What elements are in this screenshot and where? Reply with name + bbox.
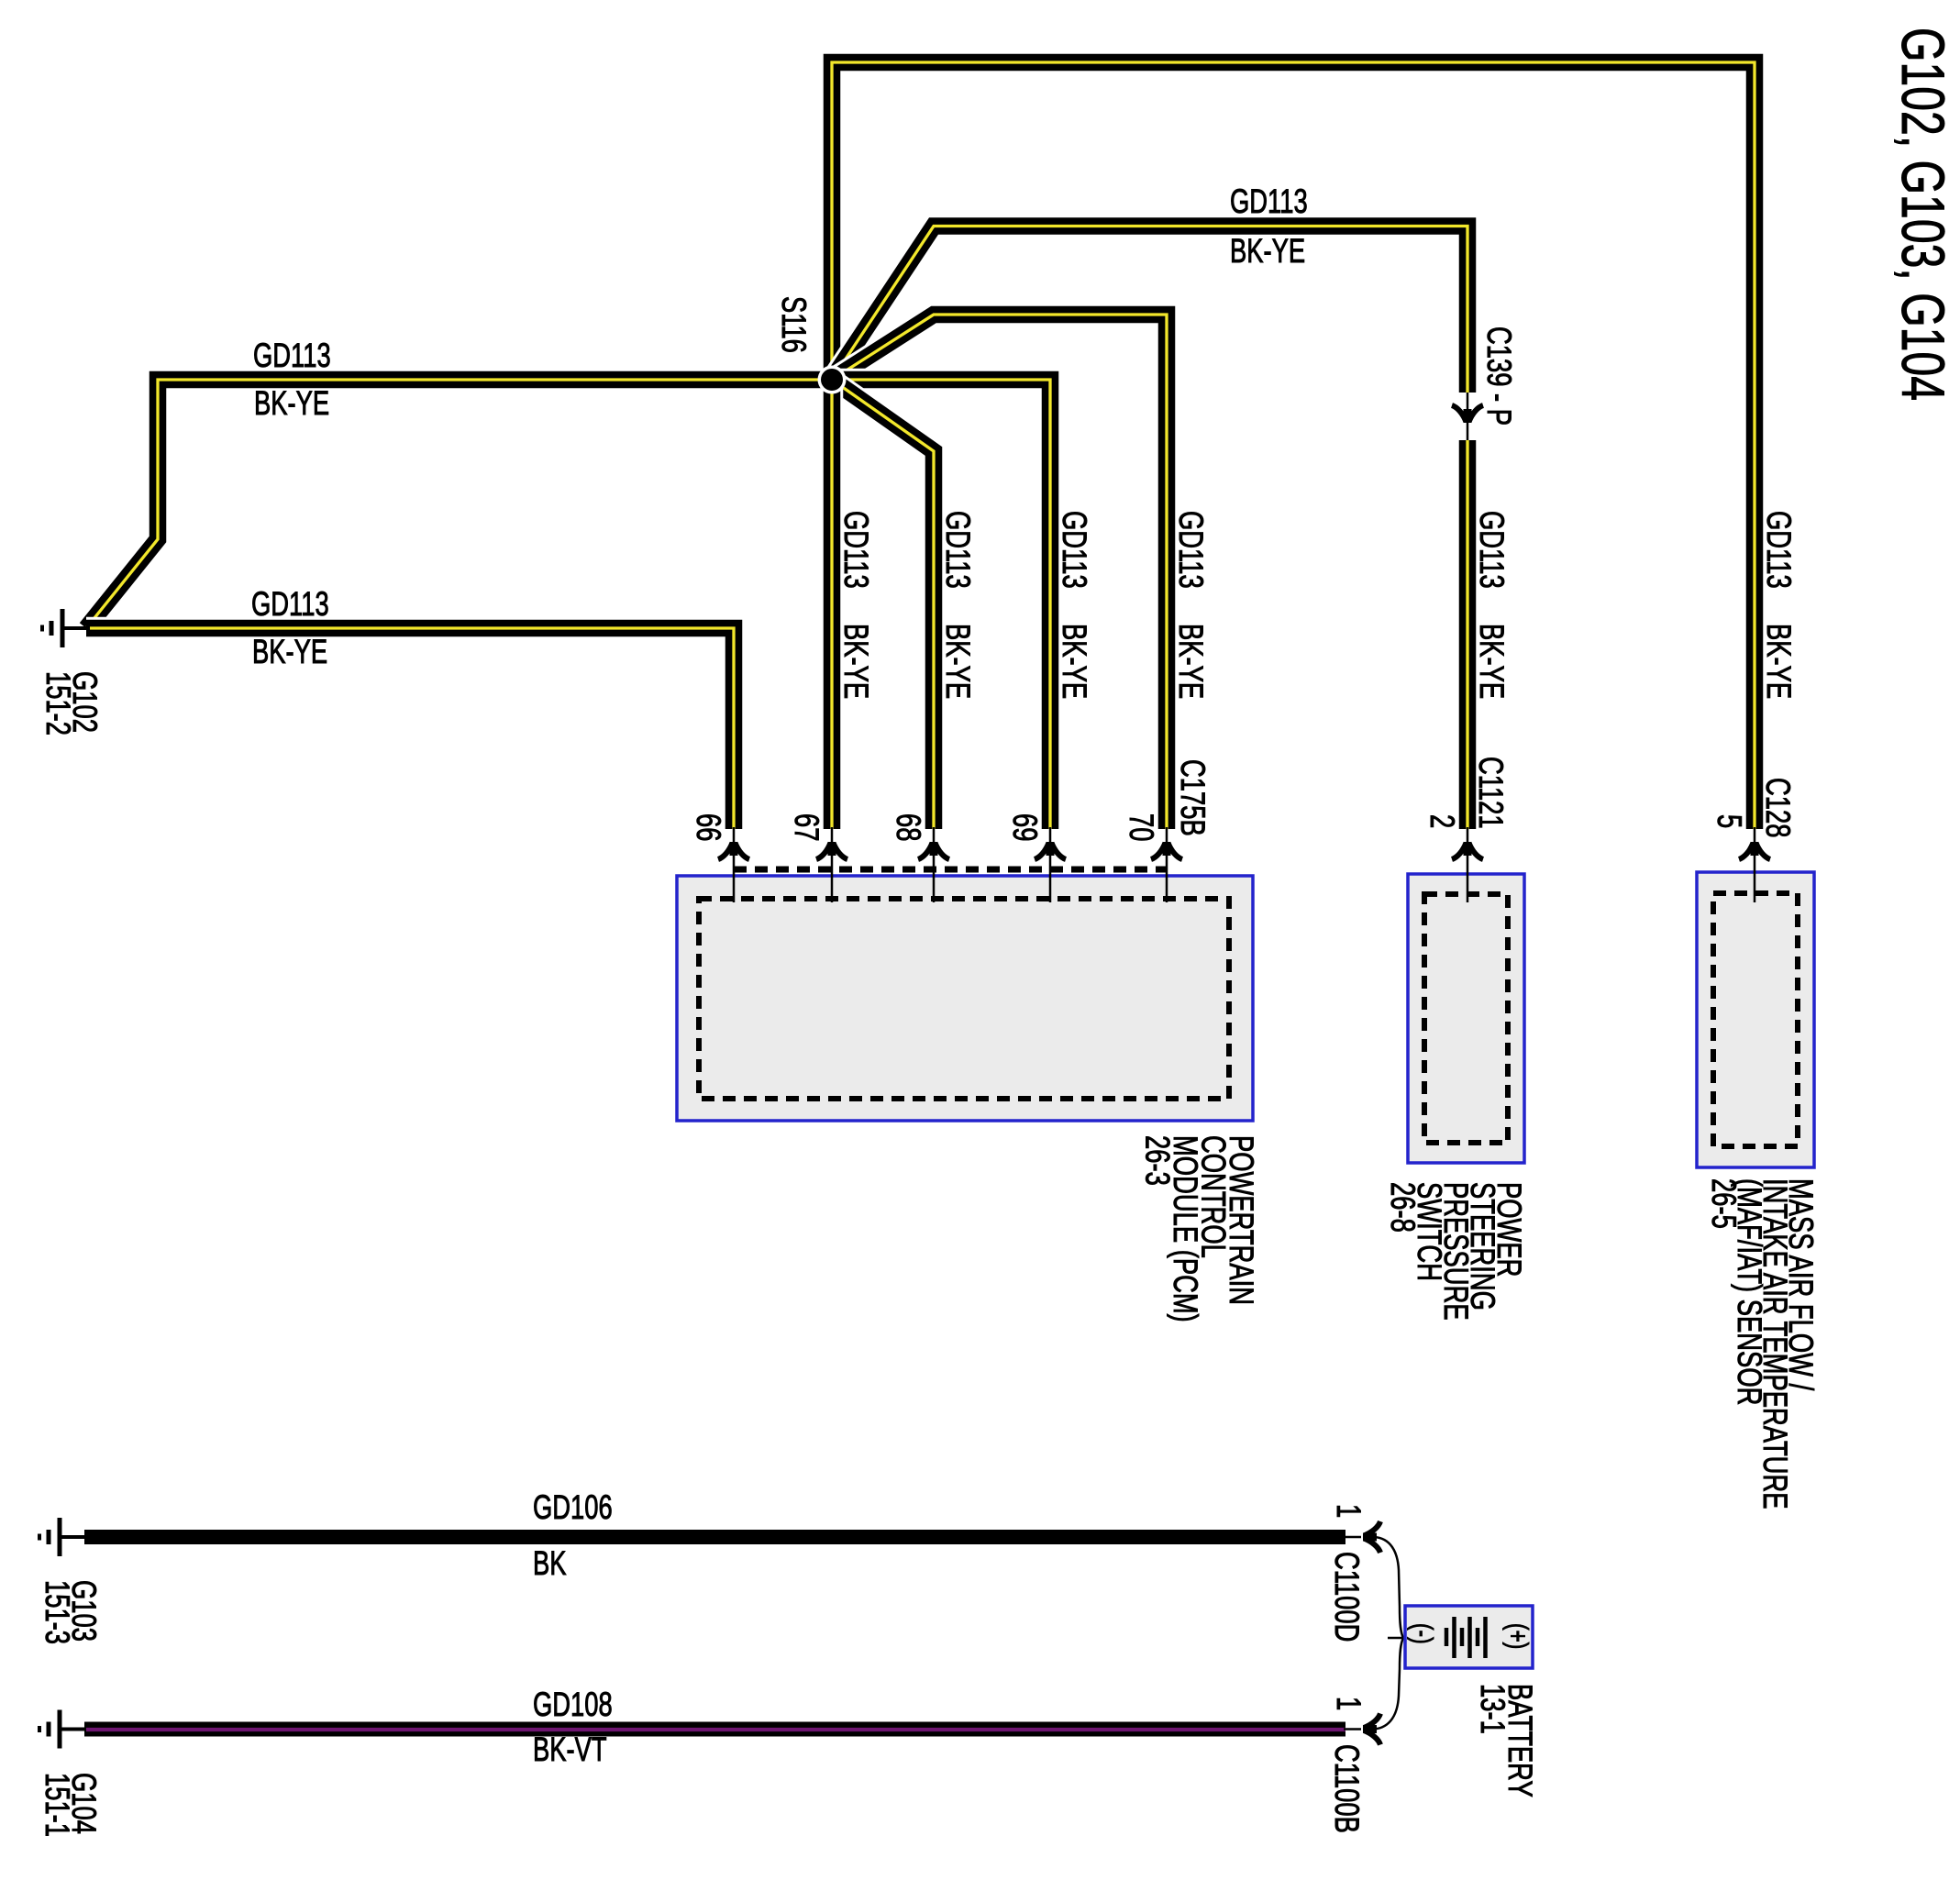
wire GD113 BK-YE from ground G102 to PCM pin 66 xyxy=(86,628,734,829)
MAF/IAT sensor box xyxy=(1697,872,1814,1167)
svg-text:GD113: GD113 xyxy=(1473,511,1512,589)
pin number 1 label (C1100B) xyxy=(1330,1697,1368,1710)
svg-text:1: 1 xyxy=(1330,1504,1368,1518)
wire GD113 BK-YE from C139-P to power steering pressure switch pin 2 xyxy=(1456,440,1479,829)
svg-text:GD106: GD106 xyxy=(533,1487,613,1526)
pin 66 lead into PCM xyxy=(718,827,749,902)
wire label BK-YE (upper run to C139) xyxy=(1230,231,1305,270)
wire from C1100D to battery negative terminal xyxy=(1374,1537,1403,1638)
wire label BK-YE (ground G102 run) xyxy=(252,632,327,670)
svg-text:67: 67 xyxy=(788,813,826,841)
connector C1100D label xyxy=(1328,1552,1367,1642)
svg-text:GD108: GD108 xyxy=(533,1685,613,1723)
svg-text:26-3: 26-3 xyxy=(1139,1135,1178,1186)
battery terminal stub xyxy=(1388,1637,1406,1640)
svg-text:GD113: GD113 xyxy=(1760,511,1799,589)
wire label GD113 (pin 69 drop) xyxy=(1056,511,1094,589)
ground G102 xyxy=(42,609,90,647)
svg-text:BK-YE: BK-YE xyxy=(1230,231,1305,270)
wire label GD113 (C139 drop) xyxy=(1473,511,1512,589)
net label G102, G103, G104 title xyxy=(1888,28,1955,401)
ground G104 xyxy=(39,1710,87,1749)
battery negative terminal label (-) xyxy=(1407,1623,1439,1644)
wire label BK-YE (pin 68 drop) xyxy=(939,624,978,699)
svg-text:BK: BK xyxy=(533,1543,567,1582)
svg-text:151-2: 151-2 xyxy=(39,671,78,735)
PCM name label POWERTRAIN CONTROL MODULE (PCM) 26-3 xyxy=(1139,1135,1262,1322)
connector C1121 label xyxy=(1472,757,1511,829)
ground label G102 151-2 xyxy=(39,671,105,735)
PCM inner dashed outline xyxy=(699,899,1229,1099)
pin number 68 label xyxy=(890,813,928,841)
svg-text:(-): (-) xyxy=(1407,1623,1439,1644)
svg-text:GD113: GD113 xyxy=(1172,511,1211,589)
svg-text:69: 69 xyxy=(1006,813,1045,841)
connector C1100B label xyxy=(1328,1744,1367,1833)
pin 5 lead into sensor xyxy=(1739,827,1770,902)
svg-text:GD113: GD113 xyxy=(251,584,329,623)
svg-text:GD113: GD113 xyxy=(253,336,331,374)
svg-text:(+): (+) xyxy=(1502,1623,1534,1649)
inline connector C139-P symbol xyxy=(1452,393,1483,440)
svg-text:70: 70 xyxy=(1123,813,1161,841)
splice S116 xyxy=(818,366,847,394)
wire label BK-VT xyxy=(533,1730,607,1768)
pin 67 lead into PCM xyxy=(816,827,847,902)
wire label BK-YE (pin 67 drop) xyxy=(837,624,876,699)
splice label S116 xyxy=(775,296,814,353)
wire label BK-YE (left run) xyxy=(254,383,329,422)
connector C175B dashed line xyxy=(734,867,1167,873)
svg-text:C139 - P: C139 - P xyxy=(1480,326,1519,426)
wire GD113 BK-YE from ground G102 up to splice S116 (segment a) xyxy=(86,380,832,628)
wire label GD113 (ground G102 run) xyxy=(251,584,329,623)
wire label GD106 xyxy=(533,1487,613,1526)
svg-text:BK-YE: BK-YE xyxy=(837,624,876,699)
battery name label BATTERY 13-1 xyxy=(1474,1684,1540,1797)
connector C175B label xyxy=(1174,759,1213,836)
power steering pressure switch inner dashed outline xyxy=(1424,894,1508,1143)
svg-text:GD113: GD113 xyxy=(939,511,978,589)
svg-text:G102, G103, G104: G102, G103, G104 xyxy=(1888,28,1955,401)
svg-text:C1100D: C1100D xyxy=(1328,1552,1367,1642)
pin number 1 label (C1100D) xyxy=(1330,1504,1368,1518)
pin 68 lead into PCM xyxy=(918,827,949,902)
svg-text:26-5: 26-5 xyxy=(1705,1178,1744,1229)
wire label BK xyxy=(533,1543,567,1582)
pin number 66 label xyxy=(690,813,728,841)
svg-text:C1121: C1121 xyxy=(1472,757,1511,829)
MAF/IAT sensor inner dashed outline xyxy=(1713,893,1798,1146)
svg-text:151-1: 151-1 xyxy=(39,1773,77,1837)
svg-text:2: 2 xyxy=(1423,814,1462,828)
svg-text:66: 66 xyxy=(690,813,728,841)
svg-text:C1100B: C1100B xyxy=(1328,1744,1367,1833)
connector C1100D pin 1 arrow xyxy=(1344,1521,1380,1553)
svg-text:26-8: 26-8 xyxy=(1384,1182,1423,1233)
PCM module box xyxy=(677,876,1253,1121)
power steering pressure switch box xyxy=(1408,874,1524,1163)
wire GD108 BK-VT from ground G104 to battery C1100B pin 1 xyxy=(84,1722,1345,1738)
connector C128 label xyxy=(1759,778,1798,837)
pin 70 lead into PCM xyxy=(1151,827,1182,902)
svg-text:GD113: GD113 xyxy=(1230,182,1308,220)
wire GD113 BK-YE splice S116 to PCM pin 69 xyxy=(832,380,1050,829)
svg-text:13-1: 13-1 xyxy=(1474,1684,1512,1734)
svg-text:1: 1 xyxy=(1330,1697,1368,1710)
connector C1100B pin 1 arrow xyxy=(1344,1714,1380,1745)
svg-text:C175B: C175B xyxy=(1174,759,1213,836)
wire GD113 BK-YE splice S116 riser, top run, drop to MAF C128 pin 5 xyxy=(832,62,1755,829)
svg-text:C128: C128 xyxy=(1759,778,1798,837)
wire label GD113 (pin 67 drop) xyxy=(837,511,876,589)
ground G103 xyxy=(39,1518,87,1556)
ground label G103 151-3 xyxy=(39,1580,104,1644)
pin 69 lead into PCM xyxy=(1035,827,1066,902)
svg-text:151-3: 151-3 xyxy=(39,1580,77,1644)
wire GD113 BK-YE splice S116 to PCM pin 67 xyxy=(821,380,844,829)
wire label BK-YE (C139 drop) xyxy=(1473,624,1512,699)
ground label G104 151-1 xyxy=(39,1773,104,1837)
svg-text:BK-YE: BK-YE xyxy=(254,383,329,422)
wire GD113 BK-YE splice S116 to inline connector C139-P (upper) xyxy=(832,227,1467,393)
pin number 70 label xyxy=(1123,813,1161,841)
svg-text:GD113: GD113 xyxy=(1056,511,1094,589)
wire GD106 BK from ground G103 to battery C1100D pin 1 xyxy=(84,1530,1345,1544)
battery cell plates xyxy=(1446,1617,1486,1658)
svg-text:BK-YE: BK-YE xyxy=(252,632,327,670)
wire label GD113 (pin 70 drop) xyxy=(1172,511,1211,589)
svg-text:GD113: GD113 xyxy=(837,511,876,589)
pin number 67 label xyxy=(788,813,826,841)
wire label GD108 xyxy=(533,1685,613,1723)
battery box xyxy=(1405,1606,1533,1668)
wire GD113 BK-YE splice S116 to PCM pin 68 xyxy=(832,380,934,829)
connector C139 - P label xyxy=(1480,326,1519,426)
svg-text:BK-VT: BK-VT xyxy=(533,1730,607,1768)
wire label GD113 (pin 68 drop) xyxy=(939,511,978,589)
svg-text:68: 68 xyxy=(890,813,928,841)
sensor name label MASS AIR FLOW / INTAKE AIR TEMPERATURE (MAF/IAT) SENSOR 26-5 xyxy=(1705,1178,1821,1509)
svg-text:BK-YE: BK-YE xyxy=(1172,624,1211,699)
svg-text:BK-YE: BK-YE xyxy=(1473,624,1512,699)
wire label GD113 (MAF drop) xyxy=(1760,511,1799,589)
wire label BK-YE (MAF drop) xyxy=(1760,624,1799,699)
svg-text:S116: S116 xyxy=(775,296,814,353)
svg-text:BK-YE: BK-YE xyxy=(1760,624,1799,699)
pin number 69 label xyxy=(1006,813,1045,841)
wire label GD113 (upper run to C139) xyxy=(1230,182,1308,220)
wire label BK-YE (pin 70 drop) xyxy=(1172,624,1211,699)
pin number 5 label xyxy=(1711,814,1749,828)
svg-text:5: 5 xyxy=(1711,814,1749,828)
battery positive terminal label (+) xyxy=(1502,1623,1534,1649)
wire label BK-YE (pin 69 drop) xyxy=(1056,624,1094,699)
wire label GD113 (left run) xyxy=(253,336,331,374)
switch name label POWER STEERING PRESSURE SWITCH 26-8 xyxy=(1384,1182,1529,1321)
svg-text:BK-YE: BK-YE xyxy=(939,624,978,699)
pin number 2 label xyxy=(1423,814,1462,828)
wire GD113 BK-YE splice S116 to PCM pin 70 xyxy=(832,315,1167,829)
pin 2 lead into switch xyxy=(1452,827,1483,902)
wire from C1100B to battery negative terminal xyxy=(1374,1638,1403,1730)
svg-text:BK-YE: BK-YE xyxy=(1056,624,1094,699)
